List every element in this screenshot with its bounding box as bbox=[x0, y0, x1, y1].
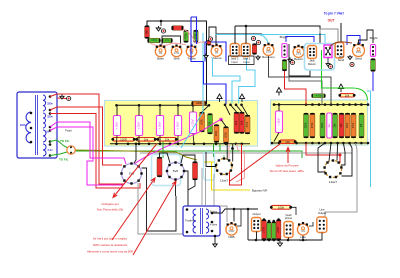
svg-text:+ 10uF: + 10uF bbox=[278, 117, 281, 125]
svg-text:100k: 100k bbox=[225, 132, 228, 138]
resistor 470k tv1 bbox=[184, 30, 189, 43]
annotation arrow 1 bbox=[113, 144, 157, 198]
wire grey top right bbox=[320, 29, 338, 43]
svg-text:Shift: Shift bbox=[173, 57, 179, 61]
svg-text:470k: 470k bbox=[246, 121, 249, 127]
svg-text:1uF: 1uF bbox=[328, 123, 331, 128]
svg-text:250k: 250k bbox=[296, 53, 302, 56]
tube socket 12ax7 V2 bbox=[323, 159, 342, 178]
svg-text:Collegare qui: Collegare qui bbox=[101, 202, 118, 206]
wire cyan drop B bbox=[239, 58, 255, 104]
svg-text:10k: 10k bbox=[285, 140, 290, 144]
svg-text:Input: Input bbox=[232, 60, 238, 64]
capacitor input red bbox=[252, 44, 256, 55]
cyan box V1 bbox=[204, 152, 215, 180]
wire cap lead bbox=[138, 105, 140, 115]
wire v2 b bbox=[329, 143, 331, 161]
potentiometer Send bbox=[353, 43, 365, 61]
connector molex dots bbox=[325, 47, 327, 49]
wire grey B+ down bbox=[138, 183, 184, 234]
capacitor bright 1 bbox=[282, 44, 287, 58]
svg-text:12ax7: 12ax7 bbox=[329, 180, 338, 184]
wire fan1 bbox=[202, 105, 209, 112]
wire v2 e bbox=[341, 143, 345, 165]
svg-text:180k: 180k bbox=[151, 38, 157, 42]
svg-text:Twist: Twist bbox=[65, 129, 72, 133]
wire salmon v1 a bbox=[228, 144, 230, 159]
jack J7 line out bbox=[317, 217, 327, 233]
wire green screen bbox=[162, 142, 164, 159]
T2 secondary coil bottom bbox=[206, 222, 209, 233]
wire cap2 down bbox=[138, 136, 140, 144]
svg-text:1M: 1M bbox=[159, 52, 162, 55]
resistor 1k5 rb bbox=[339, 113, 344, 138]
node magenta junction bbox=[219, 118, 223, 122]
svg-text:TO FIL: TO FIL bbox=[59, 158, 69, 162]
resistor load a2 bbox=[267, 222, 271, 241]
chassis dot molex bbox=[328, 64, 332, 68]
resistor 470k tv2 bbox=[194, 30, 199, 43]
svg-text:Valore da Provare: Valore da Provare bbox=[275, 164, 298, 168]
jack J4 send bbox=[335, 43, 344, 59]
node rail dots bbox=[255, 239, 258, 242]
svg-text:100k: 100k bbox=[278, 205, 285, 209]
wire cap3 down bbox=[159, 136, 161, 144]
wire magenta plate feed bbox=[126, 120, 221, 171]
main filter/preamp board bbox=[105, 101, 258, 147]
resistor 220k rb bbox=[345, 113, 350, 138]
wire HT red C bbox=[50, 114, 140, 189]
wire cap5 down bbox=[193, 134, 194, 144]
wire black v1 left bbox=[206, 152, 216, 167]
svg-text:100R: 100R bbox=[120, 137, 127, 141]
svg-text:Bass: Bass bbox=[157, 57, 164, 61]
capacitor C4 + 10uF bbox=[174, 116, 181, 136]
resistor 220k top bbox=[192, 101, 207, 106]
label box jacks bbox=[229, 56, 255, 64]
svg-text:220k: 220k bbox=[346, 122, 349, 128]
resistor load 270R b bbox=[276, 220, 281, 241]
svg-text:12ax7: 12ax7 bbox=[220, 179, 229, 183]
resistor 100k rb bbox=[320, 113, 325, 138]
jack J5 output bbox=[252, 218, 262, 232]
tube socket 12ax7 V1 bbox=[215, 157, 233, 175]
capacitor C2 + 22uF bbox=[135, 116, 142, 136]
resistor 1k5 a bbox=[234, 112, 239, 134]
wire fan2 bbox=[225, 105, 230, 115]
resistor 1M rb bbox=[359, 113, 364, 138]
resistor 220k rb bbox=[304, 113, 309, 138]
wire linepot drop bbox=[302, 235, 304, 240]
wire fan3 bbox=[231, 105, 237, 112]
node rb bottom dots bbox=[271, 142, 274, 145]
chassis terminal near T1 bbox=[67, 96, 71, 100]
wire cap4 down bbox=[177, 136, 179, 144]
ground send bbox=[348, 55, 352, 60]
capacitor small red treble bbox=[207, 40, 211, 46]
ground volume bbox=[204, 54, 208, 59]
svg-text:100k: 100k bbox=[201, 119, 204, 125]
wire dark2 into rb bbox=[289, 76, 322, 105]
wire junction to res bbox=[221, 120, 226, 127]
T1 secondary coil 320v bbox=[43, 113, 46, 128]
wire grey v1 down bbox=[214, 174, 227, 222]
svg-text:6.3v: 6.3v bbox=[47, 148, 53, 152]
wire heater olive bbox=[75, 150, 197, 160]
wire brown send bbox=[329, 42, 352, 48]
node res top dots bbox=[263, 218, 266, 221]
wire outjack drop bbox=[247, 209, 249, 218]
svg-text:270R: 270R bbox=[277, 227, 280, 233]
resistor 470k e bbox=[245, 115, 250, 134]
wire fan4 bbox=[236, 105, 242, 112]
wire 6v6 screen bbox=[184, 171, 188, 190]
power transformer T1 box bbox=[17, 92, 57, 158]
wire v2 a bbox=[318, 143, 325, 172]
svg-text:+ 10uF: + 10uF bbox=[177, 121, 180, 129]
svg-text:phone: phone bbox=[285, 216, 293, 220]
svg-text:230v: 230v bbox=[20, 123, 27, 127]
svg-text:250k: 250k bbox=[266, 51, 272, 54]
tube socket 5Y3 bbox=[120, 162, 142, 184]
jack J3 return bbox=[308, 46, 317, 59]
resistor 100R bbox=[111, 137, 135, 141]
T1 core bbox=[36, 95, 38, 155]
wire jack2 up bbox=[234, 26, 236, 44]
wire 6v6 right top bbox=[181, 155, 195, 163]
resistor load a3 bbox=[272, 222, 276, 241]
wire c6 top bbox=[278, 105, 280, 111]
svg-text:OUT: OUT bbox=[328, 19, 335, 23]
node j2 bbox=[231, 147, 234, 150]
ground tone stack bbox=[156, 26, 161, 31]
T2 secondary coil top bbox=[206, 209, 209, 219]
svg-text:Non Prima della 10k: Non Prima della 10k bbox=[97, 208, 124, 212]
wire 5v magenta A bbox=[50, 122, 126, 164]
svg-text:Input: Input bbox=[244, 60, 250, 64]
wire black recovery loop bbox=[289, 44, 310, 76]
svg-text:470k: 470k bbox=[174, 52, 180, 55]
wire blue signal bbox=[191, 17, 197, 21]
chassis dot volume bbox=[208, 37, 212, 41]
wire cap lead bbox=[159, 105, 161, 115]
svg-text:Return: Return bbox=[308, 62, 317, 66]
svg-text:Bypass NFi: Bypass NFi bbox=[252, 188, 268, 192]
T2 core bbox=[201, 208, 203, 234]
resistor 47k tone B bbox=[162, 38, 173, 43]
annotation arrow 3 bbox=[286, 148, 290, 164]
wire right board top bus bbox=[274, 104, 368, 106]
ground triangle main board b bbox=[217, 94, 222, 102]
svg-text:22k: 22k bbox=[165, 137, 170, 141]
pilot lamp bbox=[67, 146, 75, 154]
chassis dot send bbox=[350, 62, 354, 66]
resistor 100k headphone bbox=[270, 205, 292, 209]
svg-text:1k5: 1k5 bbox=[240, 120, 243, 125]
wire fan5 bbox=[242, 105, 248, 115]
wire grey heater a bbox=[201, 168, 203, 205]
wire cyan to molex bbox=[257, 35, 325, 45]
wire red down from bright bbox=[285, 71, 307, 105]
resistor cathode 6V6 left bbox=[157, 157, 162, 177]
jack J2 input bbox=[230, 44, 239, 57]
svg-text:470k: 470k bbox=[311, 122, 314, 128]
wire main board top bus bbox=[117, 104, 210, 106]
potentiometer Return bbox=[293, 45, 304, 62]
svg-text:320v: 320v bbox=[47, 115, 53, 119]
svg-text:NFB: NFB bbox=[229, 235, 235, 239]
node bottom dots bbox=[115, 143, 118, 146]
svg-text:Treble: Treble bbox=[187, 57, 196, 61]
svg-text:4 ohm: 4 ohm bbox=[210, 223, 217, 227]
wire salmon v1 b bbox=[236, 144, 245, 182]
node bus dots bbox=[115, 104, 118, 107]
wire 6v6 right down bbox=[188, 180, 195, 206]
node top dot bbox=[160, 20, 163, 23]
jack J6 headphone bbox=[284, 222, 293, 238]
svg-text:Output: Output bbox=[318, 211, 326, 215]
resistor 10k b bbox=[208, 114, 213, 135]
wire out rail top bbox=[247, 218, 249, 240]
svg-text:100k: 100k bbox=[321, 122, 324, 128]
wire black 5y3 top bbox=[134, 144, 136, 163]
svg-text:Output: Output bbox=[252, 212, 260, 216]
chassis dot tone bbox=[161, 29, 165, 33]
resistor grid 6V6 right bbox=[193, 162, 198, 181]
svg-text:Return: Return bbox=[294, 57, 303, 61]
node sec dots bbox=[233, 208, 236, 211]
ground jacks rail bbox=[278, 241, 283, 246]
svg-text:470k: 470k bbox=[352, 122, 355, 128]
wire headphone drop bbox=[288, 238, 290, 241]
wire 6v6 left top bbox=[160, 153, 171, 163]
right preamp board bbox=[271, 100, 368, 145]
ground triangle right board2 bbox=[338, 84, 343, 92]
wire heater green bbox=[75, 151, 302, 158]
resistor load 270R a bbox=[262, 220, 267, 241]
T1 secondary coil 6.3v bbox=[43, 144, 46, 156]
ground molex bbox=[326, 62, 330, 66]
potentiometer Volume bbox=[211, 44, 222, 61]
wire loop jack1 up bbox=[235, 26, 320, 44]
wire hp link bbox=[291, 207, 296, 215]
wire 6.3v green B bbox=[50, 152, 67, 156]
svg-text:10k: 10k bbox=[144, 137, 149, 141]
wire cyan right edge bbox=[367, 91, 371, 187]
wire blue from bright cap bbox=[372, 72, 374, 91]
wire black v1 b bbox=[232, 144, 234, 162]
svg-text:250k: 250k bbox=[356, 51, 362, 54]
wire send to bright bbox=[359, 30, 374, 44]
svg-text:To pin 7 V4a?: To pin 7 V4a? bbox=[324, 12, 345, 16]
wire output jack drop bbox=[256, 232, 258, 241]
wire green molex bbox=[321, 50, 323, 58]
svg-text:Triodhm: Triodhm bbox=[185, 220, 194, 223]
wire out drop bbox=[340, 23, 342, 44]
wire grey heater b bbox=[205, 168, 207, 205]
svg-text:500R: 500R bbox=[229, 230, 235, 233]
svg-text:220k: 220k bbox=[196, 101, 202, 105]
svg-text:100k: 100k bbox=[215, 130, 218, 136]
svg-text:+ 22uF: + 22uF bbox=[138, 121, 141, 129]
potentiometer Recovery bbox=[262, 43, 275, 60]
T1 primary coil bbox=[26, 112, 31, 143]
wire cap1 down bbox=[116, 136, 119, 144]
T1 terminal dots bbox=[49, 95, 52, 98]
svg-text:Altrimenti e come avere una da: Altrimenti e come avere una da 50R bbox=[87, 250, 133, 254]
wire main board bottom rail bbox=[110, 143, 250, 145]
wire 5v magenta B bbox=[50, 127, 126, 185]
connector molex bbox=[324, 45, 332, 58]
resistor 470k rb bbox=[310, 113, 315, 138]
wire 6v6 plate down bbox=[175, 180, 177, 197]
capacitor coupling rb bbox=[327, 113, 332, 138]
wire bottom rail jacks bbox=[248, 239, 312, 241]
wire cap lead bbox=[177, 105, 179, 115]
wire treble out bbox=[209, 27, 216, 44]
annotation arrow 2 bbox=[112, 178, 155, 240]
svg-text:Send: Send bbox=[355, 56, 362, 60]
node red junction bbox=[339, 154, 342, 157]
svg-text:Bright: Bright bbox=[370, 36, 378, 40]
wire line bottom bbox=[312, 233, 322, 241]
potentiometer Bass bbox=[155, 44, 165, 60]
output transformer T2 box bbox=[183, 206, 220, 236]
wire black box tone bbox=[162, 36, 181, 45]
wire red v1 U bbox=[230, 144, 242, 185]
node rb top dots bbox=[273, 103, 276, 106]
resistor 100k d bbox=[224, 127, 229, 144]
T1 secondary coil 5v bbox=[43, 130, 46, 142]
svg-text:470k: 470k bbox=[185, 33, 188, 39]
wire molex gnd bbox=[327, 58, 329, 63]
wire black v1 drop bbox=[226, 144, 228, 160]
node bright2 dots bbox=[372, 46, 374, 48]
wire green bias bbox=[213, 144, 215, 157]
resistor 10k below rb bbox=[278, 140, 296, 144]
node jack loop bbox=[245, 25, 248, 28]
svg-text:270R: 270R bbox=[263, 227, 266, 233]
wire green curve rb bbox=[322, 58, 368, 100]
svg-text:Sul pin IP devi avere -28b+: Sul pin IP devi avere -28b+ bbox=[270, 169, 305, 173]
capacitor bright 2 bbox=[370, 45, 375, 57]
wire HT red A bbox=[50, 94, 124, 184]
chassis dot recovery bbox=[256, 40, 260, 44]
capacitor C6 +10uF bbox=[276, 111, 283, 133]
wire 6.3v green A bbox=[50, 140, 68, 148]
potentiometer Shift bbox=[171, 44, 181, 60]
wire nfb link bbox=[237, 209, 241, 226]
resistor 1k5 b bbox=[239, 112, 244, 134]
svg-text:Se hai il pot (che e meglio): Se hai il pot (che e meglio) bbox=[93, 237, 127, 241]
wire c6 bot bbox=[274, 133, 279, 142]
wire gnd stub bbox=[160, 21, 162, 26]
wire cap lead bbox=[116, 105, 118, 115]
wire heater grey bbox=[140, 152, 352, 154]
wire blue volume down bbox=[204, 62, 227, 105]
ground triangle main board bbox=[239, 94, 244, 102]
wire v2 c bbox=[336, 143, 339, 161]
svg-text:Volume: Volume bbox=[211, 56, 221, 60]
resistor bright 1 bbox=[282, 60, 287, 72]
svg-text:TO FIL: TO FIL bbox=[60, 139, 70, 143]
svg-text:Recovery: Recovery bbox=[262, 55, 275, 59]
resistor 100k c bbox=[214, 125, 219, 143]
potentiometer Treble bbox=[186, 44, 196, 60]
svg-text:6V6: 6V6 bbox=[173, 169, 179, 173]
capacitor C5 +22uF bbox=[190, 112, 197, 134]
potentiometer NFB bbox=[226, 222, 237, 239]
wire green bias2 bbox=[219, 144, 221, 151]
capacitor C1 + 10uF bbox=[113, 116, 120, 136]
svg-text:1M: 1M bbox=[360, 124, 363, 127]
ground recovery bbox=[256, 55, 260, 60]
resistor 10k rb bbox=[333, 113, 338, 138]
ground T2 bbox=[213, 242, 218, 247]
wire blue volume box bbox=[205, 42, 226, 62]
resistor 470k top h bbox=[312, 93, 326, 98]
wire top run bbox=[147, 21, 207, 104]
ground triangle right board bbox=[276, 88, 281, 96]
wire dark1 into rb bbox=[269, 56, 332, 105]
T2 primary coil bbox=[193, 209, 196, 233]
wire HT red B bbox=[50, 107, 122, 165]
wire cyan shielded to board bbox=[181, 33, 203, 148]
resistor 100k tone A bbox=[148, 38, 161, 43]
svg-text:NON mettere la resistenza: NON mettere la resistenza bbox=[93, 243, 127, 247]
wire T2 sec out bbox=[212, 209, 258, 213]
cyan box return bbox=[305, 44, 335, 71]
resistor bright 2 bbox=[371, 59, 376, 72]
svg-text:470k: 470k bbox=[316, 93, 322, 97]
wire blue vertical A bbox=[191, 17, 204, 62]
annotation arrow 2b bbox=[133, 181, 176, 255]
wire cap lead bbox=[192, 105, 194, 112]
svg-text:1k5: 1k5 bbox=[235, 120, 238, 125]
ground near T1 bbox=[60, 95, 64, 100]
wire right board bottom bus bbox=[272, 142, 368, 144]
capacitor slope red bbox=[172, 26, 184, 30]
chassis dot input bbox=[251, 36, 255, 40]
jack J1 input bbox=[241, 44, 250, 57]
wire blue send loop bbox=[347, 36, 360, 46]
svg-text:10k: 10k bbox=[345, 93, 350, 97]
wire red rb to V2 bbox=[306, 143, 340, 163]
svg-text:1k5: 1k5 bbox=[340, 123, 343, 128]
wire red stub chassis bbox=[57, 97, 66, 100]
resistor 10k bbox=[135, 137, 156, 141]
svg-text:220k: 220k bbox=[305, 122, 308, 128]
svg-text:330v: 330v bbox=[47, 102, 53, 106]
node bright dots bbox=[283, 45, 285, 47]
wire cyan drop A bbox=[213, 58, 241, 104]
wire blue bright link bbox=[286, 37, 314, 43]
wire red nfb diag bbox=[230, 144, 280, 181]
svg-text:1M: 1M bbox=[215, 52, 218, 55]
wire line link bbox=[309, 222, 313, 226]
wire salmon tone bbox=[150, 29, 196, 46]
resistor 470k rb bbox=[351, 113, 356, 138]
ground return bbox=[288, 58, 292, 63]
wire black vol-recovery bbox=[217, 33, 263, 35]
wire NFB drop bbox=[233, 209, 235, 222]
wire salmon tone2 bbox=[196, 42, 214, 46]
svg-text:+ 10uF: + 10uF bbox=[159, 121, 162, 129]
wire v2 d bbox=[342, 143, 353, 176]
T1 secondary coil 330v bbox=[43, 95, 46, 111]
node top dots right bbox=[224, 104, 227, 107]
chassis dot return bbox=[290, 60, 294, 64]
